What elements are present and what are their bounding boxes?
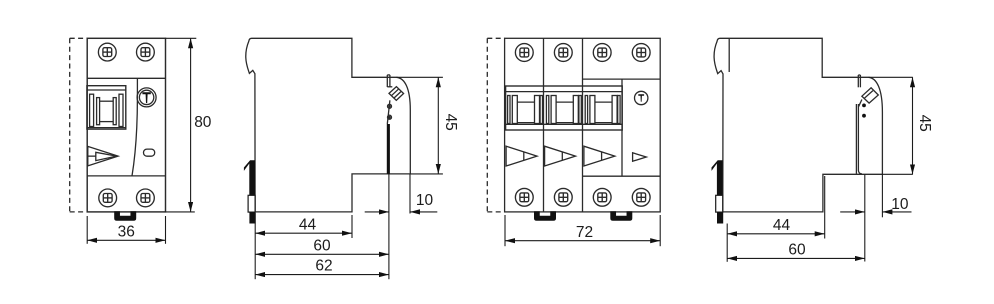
svg-text:60: 60 bbox=[788, 241, 806, 258]
dim 10 extensions bbox=[865, 174, 883, 261]
svg-text:80: 80 bbox=[194, 114, 212, 131]
terminal bottom 2 bbox=[554, 188, 572, 206]
left extension line bbox=[254, 213, 256, 279]
dim 36 extension lines bbox=[87, 216, 165, 244]
breaker side view B bbox=[714, 38, 882, 212]
DIN clip left bbox=[534, 211, 556, 221]
svg-text:10: 10 bbox=[416, 192, 434, 209]
dim 80 bbox=[190, 38, 192, 212]
terminal zone separator bbox=[87, 77, 165, 79]
test button T small bbox=[635, 91, 648, 104]
breaker front view 2-module bbox=[70, 38, 166, 212]
body outline bbox=[87, 38, 165, 212]
curved module divider bbox=[132, 78, 137, 176]
breaker front view 4-module bbox=[487, 38, 504, 212]
small triangle module 4 bbox=[633, 153, 647, 162]
terminal clamp diamond bbox=[862, 88, 878, 103]
clamp screws bbox=[862, 104, 866, 118]
svg-text:36: 36 bbox=[118, 224, 135, 241]
terminal top 2 bbox=[554, 44, 572, 62]
dim 44 extension bbox=[351, 215, 353, 238]
pole triangle 3 bbox=[584, 146, 615, 166]
dim 10 extension lines bbox=[389, 174, 410, 279]
housing profile bbox=[246, 38, 411, 212]
DIN clip right bbox=[610, 211, 632, 221]
terminal bottom-left bbox=[99, 189, 117, 207]
terminal clamp diamond bbox=[389, 87, 404, 101]
module dividers bbox=[544, 38, 583, 212]
body outline bbox=[505, 38, 661, 212]
toggle bar 3-pole bbox=[506, 86, 623, 130]
toggle handle bbox=[87, 86, 126, 129]
dim 62 bbox=[255, 274, 389, 276]
svg-text:62: 62 bbox=[315, 258, 332, 275]
clamp screws bbox=[387, 100, 391, 124]
dim 45 (rotated) bbox=[437, 77, 439, 174]
DIN clip side bbox=[244, 160, 255, 195]
toggle recess line bbox=[728, 38, 730, 72]
left extension bbox=[726, 224, 728, 262]
terminal pin bbox=[387, 75, 392, 87]
terminal bottom 4 bbox=[632, 188, 650, 206]
dim 45 extensions bbox=[869, 77, 913, 174]
svg-text:44: 44 bbox=[299, 217, 317, 234]
indicator window pill bbox=[144, 149, 155, 156]
dim 10 arrows (outside) bbox=[365, 211, 389, 213]
dim 60 bbox=[255, 253, 389, 255]
terminal top 4 bbox=[632, 44, 650, 62]
dim 80 extension lines bbox=[166, 38, 197, 212]
terminal pin bbox=[858, 75, 860, 87]
svg-text:72: 72 bbox=[576, 224, 593, 241]
lower zone separator bbox=[87, 175, 165, 177]
terminal bottom 1 bbox=[515, 188, 533, 206]
terminal bottom-right bbox=[137, 189, 155, 207]
dim 72 extensions bbox=[505, 215, 660, 246]
svg-text:10: 10 bbox=[891, 196, 909, 213]
busbar slot (black) bbox=[387, 124, 390, 174]
terminal top 3 bbox=[593, 44, 611, 62]
svg-text:60: 60 bbox=[313, 237, 331, 254]
busbar slot lines bbox=[856, 100, 862, 174]
test button T bbox=[137, 88, 156, 107]
terminal bottom 3 bbox=[593, 188, 611, 206]
svg-text:45: 45 bbox=[442, 114, 459, 131]
svg-text:45: 45 bbox=[916, 115, 933, 132]
RCD block lines bbox=[583, 79, 661, 176]
DIN clip bbox=[114, 211, 136, 221]
dim 44 extension bbox=[824, 176, 826, 239]
pole triangle 2 bbox=[545, 146, 576, 166]
dim 36 bbox=[87, 239, 165, 241]
svg-text:44: 44 bbox=[773, 217, 791, 234]
dim 45 extension lines bbox=[397, 77, 443, 174]
dashed aux module outline bbox=[70, 38, 88, 212]
terminal top-right bbox=[137, 43, 155, 61]
DIN clip side bbox=[712, 160, 723, 195]
trip-indicator triangle bbox=[88, 146, 118, 166]
terminal top-left bbox=[98, 43, 116, 61]
pole triangle 1 bbox=[506, 146, 537, 166]
terminal top 1 bbox=[515, 44, 533, 62]
